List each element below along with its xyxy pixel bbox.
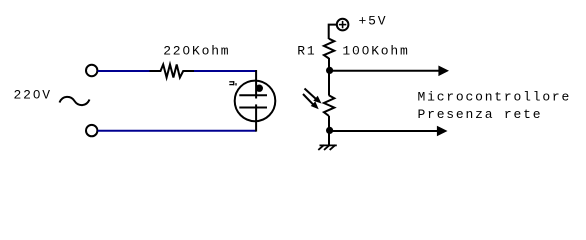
neon lamp light mark	[229, 81, 236, 85]
svg-text:220V: 220V	[14, 87, 52, 102]
wire node A to LDR	[328, 70, 330, 95]
junction node A	[326, 67, 333, 74]
svg-text:220Kohm: 220Kohm	[163, 43, 230, 58]
wire R1 to node A	[328, 58, 330, 70]
neon lamp LP1 body	[235, 81, 276, 122]
neon lamp top lead	[255, 70, 257, 99]
junction node B	[326, 127, 333, 134]
resistor 220Kohm (horizontal zigzag)	[150, 65, 195, 78]
wire from +5V to R1	[329, 25, 337, 39]
resistor R1 (vertical zigzag)	[324, 39, 334, 59]
terminal top	[86, 65, 97, 76]
wire LDR to node B	[328, 116, 330, 130]
photoresistor LDR (vertical zigzag)	[324, 95, 334, 116]
+5V supply terminal	[337, 19, 349, 31]
terminal bottom	[86, 125, 97, 136]
neon lamp bottom lead	[255, 104, 257, 131]
wire node B to arrow (output 2)	[330, 130, 438, 132]
arrowhead output 2	[437, 126, 448, 137]
ground	[318, 145, 337, 150]
wire top-left (blue)	[98, 70, 150, 72]
wire bottom (blue)	[98, 130, 256, 132]
svg-text:100Kohm: 100Kohm	[342, 43, 409, 58]
plain-zero masks	[36, 48, 367, 95]
svg-text:Microcontrollore: Microcontrollore	[418, 90, 572, 105]
svg-text:R1: R1	[297, 43, 316, 58]
AC source symbol (sine)	[60, 97, 90, 105]
svg-text:Presenza rete: Presenza rete	[418, 107, 543, 122]
light arrow 1	[305, 89, 317, 100]
wire node B to ground	[328, 130, 330, 145]
arrowhead output 1	[438, 66, 449, 77]
wire top-right (blue)	[194, 70, 256, 72]
neon lamp bottom electrode	[239, 107, 267, 109]
neon lamp top electrode	[239, 94, 267, 96]
wire node A to arrow (output 1)	[330, 70, 439, 72]
svg-text:+5V: +5V	[359, 14, 388, 29]
neon lamp gas dot	[256, 85, 263, 92]
light arrow 2	[303, 94, 313, 105]
+5V plus sign	[339, 24, 346, 26]
